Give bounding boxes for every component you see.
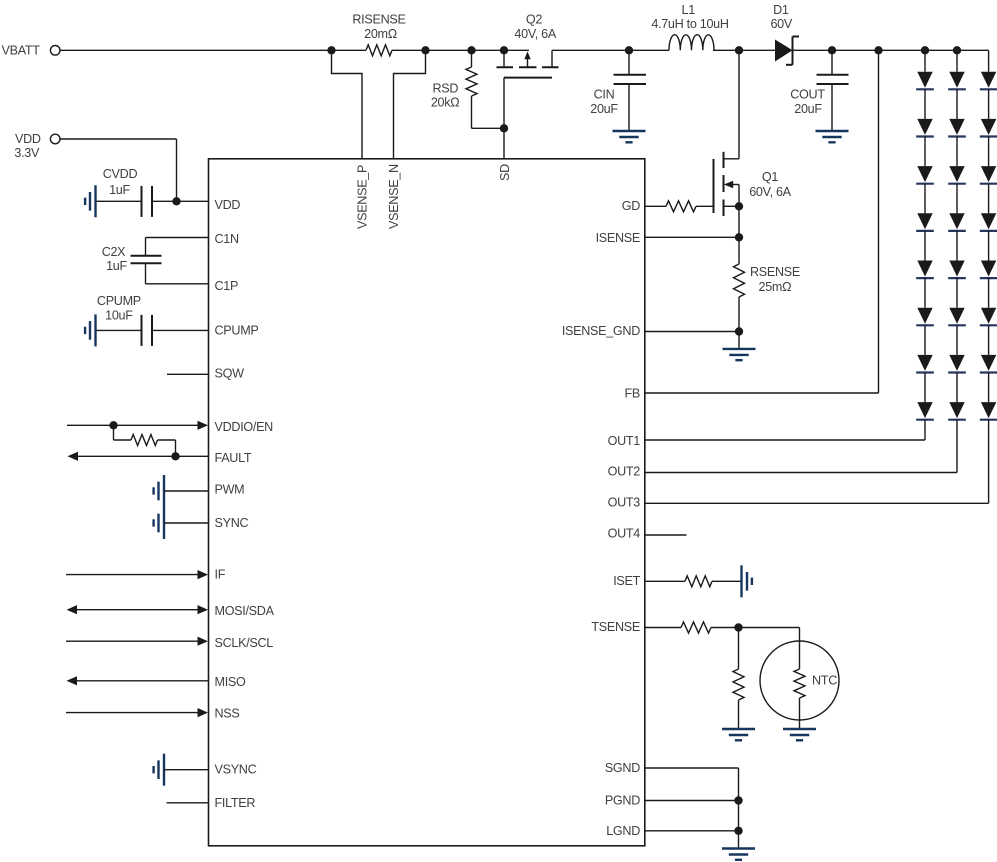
svg-text:PWM: PWM [215,483,245,497]
Q1 channel segments [723,152,725,168]
IC U1 body [209,159,645,846]
svg-text:20kΩ: 20kΩ [431,96,460,110]
resistor ISET [685,576,712,587]
svg-text:60V, 6A: 60V, 6A [749,185,791,199]
node RSD top [467,46,475,54]
LED D33 [981,166,996,182]
svg-text:20uF: 20uF [590,102,618,116]
svg-text:CVDD: CVDD [103,167,138,181]
svg-text:C1P: C1P [215,279,239,293]
resistor RSENSE 25m&#937; [738,237,740,264]
LED D28 [949,402,964,418]
svg-text:NTC: NTC [812,674,837,688]
wire D1 cathode to LED rail [793,49,989,51]
svg-text:MOSI/SDA: MOSI/SDA [215,604,275,618]
Q2 drain contact [551,50,553,67]
wire LED string 3 to OUT3 [988,420,990,504]
Q2 channel segments [497,66,514,68]
svg-text:ISENSE: ISENSE [596,231,640,245]
Q2 body arrow [527,58,529,67]
svg-text:VSENSE_P: VSENSE_P [356,165,370,229]
svg-text:10uF: 10uF [105,309,133,323]
node VSENSE_N tap [421,46,429,54]
LED D26 [949,308,964,324]
svg-text:TSENSE: TSENSE [591,620,640,634]
wire VSENSE_N [394,50,426,159]
node VDDIO divider tap [109,421,117,429]
svg-text:VSYNC: VSYNC [215,762,257,776]
wire L1 to D1 [713,49,775,51]
LED D12 [917,119,932,135]
svg-text:25mΩ: 25mΩ [759,280,792,294]
wire SD to IC [503,128,505,159]
Q1 body arrow [732,184,739,186]
svg-text:FILTER: FILTER [215,796,256,810]
svg-text:IF: IF [215,567,226,581]
svg-text:OUT1: OUT1 [608,434,641,448]
svg-text:CIN: CIN [594,88,615,102]
wire RSD to SD node [472,127,505,129]
LED D14 [917,213,932,229]
node LED string 2 tap [953,46,961,54]
resistor gate drive [666,201,696,212]
node LGND junction [734,827,742,835]
node FB tap [874,46,882,54]
LED D38 [981,402,996,418]
LED D36 [981,308,996,324]
ground PWM (rotated) [163,475,165,507]
svg-text:RSD: RSD [432,81,458,95]
wire RISENSE to Q2 source [392,49,529,51]
svg-text:PGND: PGND [605,793,640,807]
svg-text:Q1: Q1 [762,170,778,184]
node Q1 drain junction [735,46,743,54]
LED D32 [981,119,996,135]
svg-text:SYNC: SYNC [215,516,249,530]
inductor L1 4.7uH to 10uH [669,35,714,51]
svg-text:FB: FB [625,386,641,400]
LED D23 [949,166,964,182]
svg-text:OUT2: OUT2 [608,465,641,479]
wire FB riser [878,50,880,393]
svg-text:VBATT: VBATT [2,44,41,58]
LED D13 [917,166,932,182]
wire VDD supply [60,138,177,140]
svg-text:C1N: C1N [215,232,239,246]
capacitor COUT 20uF [831,50,833,75]
ground NTC [783,728,816,730]
svg-text:20uF: 20uF [794,102,822,116]
svg-text:SD: SD [498,164,512,181]
wire SQW stub [167,373,209,375]
LED D27 [949,355,964,371]
node FAULT junction [171,452,179,460]
LED D34 [981,213,996,229]
svg-text:VSENSE_N: VSENSE_N [387,164,401,229]
wire GND bus [738,768,740,849]
svg-text:C2X: C2X [102,245,126,259]
svg-text:1uF: 1uF [109,183,130,197]
node Q1 source junction [735,202,743,210]
LED D31 [981,72,996,88]
wire VBATT to RISENSE [60,49,366,51]
svg-text:20mΩ: 20mΩ [364,27,397,41]
svg-text:OUT4: OUT4 [608,527,641,541]
LED D24 [949,213,964,229]
node LED string 1 tap [921,46,929,54]
ground CVDD (rotated) [94,185,96,217]
node SD junction [500,124,508,132]
svg-text:CPUMP: CPUMP [215,324,259,338]
svg-text:FAULT: FAULT [215,451,252,465]
ground TSENSE pulldown [722,728,755,730]
svg-text:3.3V: 3.3V [14,146,40,160]
node ISENSE_GND junction [735,327,743,335]
svg-text:40V, 6A: 40V, 6A [514,27,556,41]
svg-text:COUT: COUT [790,88,825,102]
resistor TSENSE series [681,622,711,633]
ground GND bus [722,847,755,849]
svg-text:60V: 60V [770,17,792,31]
wire FILTER stub [167,802,209,804]
svg-text:NSS: NSS [215,706,240,720]
node PGND junction [734,796,742,804]
LED D18 [917,402,932,418]
LED D17 [917,355,932,371]
node VDD junction [172,197,180,205]
svg-text:LGND: LGND [606,824,640,838]
capacitor CIN 20uF [628,50,630,75]
svg-text:MISO: MISO [215,675,246,689]
resistor RISENSE 20m&#937; [366,45,392,56]
LED D11 [917,72,932,88]
wire LED string 2 to OUT2 [956,420,958,473]
svg-text:ISENSE_GND: ISENSE_GND [562,324,640,338]
svg-text:VDDIO/EN: VDDIO/EN [215,420,274,434]
LED D35 [981,261,996,277]
svg-text:RSENSE: RSENSE [750,265,800,279]
svg-text:L1: L1 [681,3,695,17]
thermistor NTC [739,627,800,629]
LED D37 [981,355,996,371]
svg-text:4.7uH to 10uH: 4.7uH to 10uH [651,17,729,31]
node TSENSE junction [734,623,742,631]
svg-text:1uF: 1uF [106,259,127,273]
svg-text:SQW: SQW [215,367,245,381]
Q1 source [724,205,740,207]
ground ISET (rotated) [740,565,742,597]
ground below CIN [613,130,646,132]
svg-text:OUT3: OUT3 [608,495,641,509]
wire VSENSE_P [332,50,363,159]
resistor TSENSE pulldown [738,628,740,670]
ground VSYNC (rotated) [163,754,165,786]
node VSENSE_P tap [327,46,335,54]
ground CPUMP (rotated) [94,314,96,346]
ground below COUT [816,130,849,132]
svg-text:RISENSE: RISENSE [352,13,405,27]
resistor VDDIO-FAULT [113,425,115,440]
ground below RSENSE [723,348,756,350]
LED D15 [917,261,932,277]
Q2 gate bar [504,77,552,79]
ground SYNC (rotated) [163,507,165,539]
wire Q2 gate to SD [503,78,505,129]
node CIN tap [625,46,633,54]
svg-text:VDD: VDD [215,198,241,212]
LED string 3 [988,50,990,71]
node ISENSE junction [735,233,743,241]
wire LED string 1 to OUT1 [924,420,926,440]
LED D25 [949,261,964,277]
Q1 drain [724,158,740,160]
svg-text:GD: GD [622,199,640,213]
resistor RSD 20k&#937; [471,50,473,67]
svg-text:VDD: VDD [15,132,41,146]
wire OUT4 stub [645,534,687,536]
svg-text:CPUMP: CPUMP [97,294,141,308]
svg-text:Q2: Q2 [526,13,542,27]
Q2 source contact [503,50,505,67]
node Q2 source tap [500,46,508,54]
svg-text:D1: D1 [773,3,789,17]
LED D16 [917,308,932,324]
Q1 gate bar [713,159,715,213]
svg-text:SGND: SGND [605,761,640,775]
svg-text:SCLK/SCL: SCLK/SCL [215,636,274,650]
node COUT tap [828,46,836,54]
svg-text:ISET: ISET [613,574,640,588]
wire Q2 drain to L1 [552,49,669,51]
LED D22 [949,119,964,135]
LED D21 [949,72,964,88]
diode D1 60V schottky [775,40,793,62]
